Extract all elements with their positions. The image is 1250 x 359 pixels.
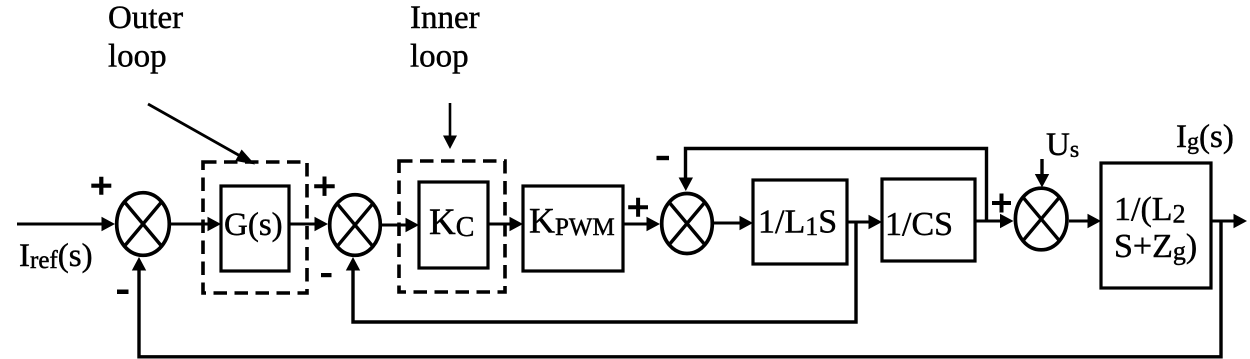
block 1/CS xyxy=(882,179,975,261)
pointer arrow from "Inner loop" to inner dashed box xyxy=(443,103,457,149)
outer loop dashed box xyxy=(203,162,307,293)
pointer arrow from "Outer loop" to outer dashed box xyxy=(148,104,255,165)
svg-text:loop: loop xyxy=(108,39,167,75)
wire S1 to G(s) xyxy=(171,222,209,225)
block 1/L1S xyxy=(753,180,847,264)
wire Kpwm to S3 xyxy=(623,222,648,225)
summing junction S2 xyxy=(330,195,381,256)
block G(s) xyxy=(221,186,289,271)
feedback wire from capacitor node to S3 (top loop) xyxy=(686,149,987,223)
block 1/(L2 S+Zg) xyxy=(1101,163,1211,288)
svg-text:loop: loop xyxy=(410,39,469,75)
wire S2 to Kc xyxy=(382,223,407,226)
summing junction S3 xyxy=(662,194,713,254)
Us input arrow into S4 xyxy=(1040,159,1043,174)
wire input Iref xyxy=(17,222,103,225)
svg-text:Outer: Outer xyxy=(108,0,183,36)
plus sign at summing junction S1 xyxy=(91,177,111,195)
plus sign at summing junction S2 xyxy=(314,177,335,196)
minus sign at summing junction S1 xyxy=(117,290,129,295)
plus sign at summing junction S4 xyxy=(992,194,1011,213)
svg-text:1/CS: 1/CS xyxy=(885,206,953,243)
svg-text:Inner: Inner xyxy=(410,0,480,36)
block Kc xyxy=(419,182,488,268)
wire Kc to Kpwm xyxy=(488,222,511,225)
wire G(s) to S2 xyxy=(289,222,316,225)
summing junction S4 xyxy=(1015,188,1067,250)
output wire with arrow xyxy=(1211,219,1235,222)
outer feedback wire from output node to S1 (bottom) xyxy=(139,221,1221,357)
label "Inner loop" xyxy=(410,0,480,75)
plus sign at summing junction S3 xyxy=(628,198,648,217)
wire 1/CS to S4 xyxy=(975,219,1002,222)
inner feedback wire from 1/L1S output node to S2 (bottom) xyxy=(353,222,856,322)
inner loop dashed box xyxy=(399,161,505,292)
svg-text:1/L1S: 1/L1S xyxy=(758,204,837,242)
svg-text:G(s): G(s) xyxy=(224,207,283,243)
wire S3 to 1/L1S xyxy=(714,221,741,224)
wire S4 to grid block xyxy=(1069,219,1089,222)
minus sign at summing junction S2 xyxy=(321,273,332,277)
summing junction S1 xyxy=(117,193,170,256)
minus sign at summing junction S3 xyxy=(657,156,670,160)
wire 1/L1S to 1/CS xyxy=(847,220,870,223)
svg-text:Ig(s): Ig(s) xyxy=(1176,119,1234,155)
block Kpwm xyxy=(523,186,623,271)
label "Outer loop" xyxy=(108,0,183,75)
